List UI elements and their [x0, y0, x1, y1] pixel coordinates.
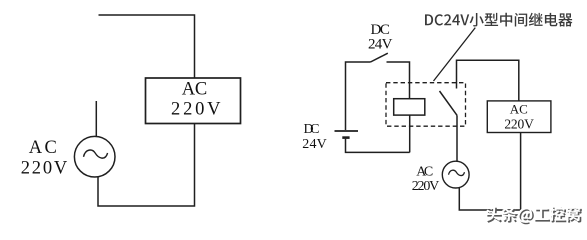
- load box AC 220V right: [487, 101, 551, 133]
- wire DC loop top: [346, 62, 371, 130]
- relay dashed box K1: [386, 83, 466, 127]
- AC source G2 circle: [442, 161, 469, 188]
- sine wave G2: [449, 170, 465, 175]
- wire contact top: [457, 60, 519, 101]
- wire top-left circuit: [99, 15, 195, 78]
- wire coil bottom: [409, 115, 411, 152]
- svg-text:220V: 220V: [171, 100, 221, 120]
- svg-text:AC: AC: [416, 165, 433, 180]
- sine wave G1: [84, 150, 108, 158]
- wire switch to coil: [387, 62, 410, 99]
- battery B1 long plate: [335, 130, 359, 132]
- switch S1 blade: [371, 53, 388, 62]
- watermark white text: [486, 206, 581, 223]
- svg-text:24V: 24V: [302, 137, 327, 152]
- svg-text:AC: AC: [182, 80, 208, 100]
- svg-text:220V: 220V: [412, 179, 440, 194]
- battery B1 short plate: [342, 136, 349, 139]
- wire contact to source G2: [456, 115, 458, 161]
- title DC24V relay text: [425, 13, 572, 27]
- wire battery bottom: [346, 139, 410, 153]
- svg-text:DC: DC: [304, 122, 320, 137]
- svg-text:24V: 24V: [368, 37, 393, 53]
- svg-text:AC: AC: [510, 101, 528, 116]
- leader line to relay: [434, 28, 476, 81]
- contact K1 blade: [440, 91, 458, 115]
- svg-text:220V: 220V: [21, 159, 68, 179]
- wire left circuit right-bottom: [98, 124, 195, 207]
- wire stub above source G1: [95, 101, 97, 137]
- watermark shadow: [487, 208, 582, 225]
- wire source G2 bottom: [459, 133, 520, 211]
- svg-text:AC: AC: [29, 138, 57, 158]
- relay coil K1 rect: [394, 99, 425, 115]
- svg-text:220V: 220V: [504, 116, 534, 131]
- AC source G1 circle: [74, 136, 115, 177]
- load box AC 220V left: [146, 78, 241, 124]
